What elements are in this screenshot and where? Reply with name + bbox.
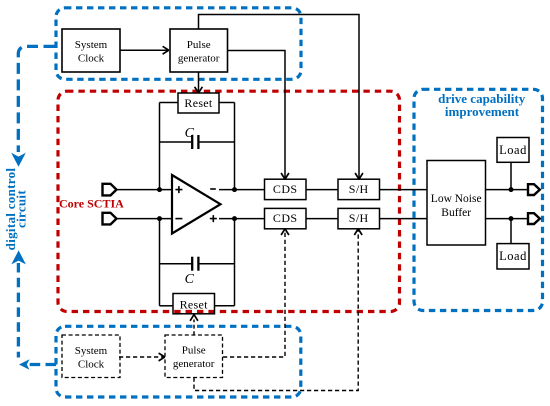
svg-text:Reset: Reset: [184, 96, 213, 110]
CDS bottom box: [265, 208, 307, 228]
S/H bottom box: [338, 208, 380, 228]
wire: pulse generator right to CDS top: [228, 51, 286, 179]
bottom feedback loop right vertical: [234, 219, 236, 306]
node: buffer out top junction: [509, 187, 514, 192]
input terminal top: [103, 184, 117, 196]
node: buffer out bottom junction: [509, 216, 514, 221]
output terminal top: [528, 184, 540, 195]
svg-text:Clock: Clock: [78, 359, 105, 371]
svg-text:Buffer: Buffer: [441, 207, 471, 219]
wire: reset bottom right lead: [215, 305, 235, 307]
output terminal bottom: [528, 213, 540, 224]
node: input bottom junction: [157, 216, 162, 221]
Load top box: [497, 138, 529, 163]
node: output bottom junction: [232, 216, 237, 221]
blue arrow down: [11, 153, 26, 167]
wire: bottom capacitor right lead: [199, 263, 234, 265]
bottom feedback loop left vertical: [159, 219, 161, 306]
System Clock box (top): [62, 29, 120, 72]
dashed wire: bottom system clock to pulse generator: [119, 356, 164, 358]
wire: system clock to pulse generator: [120, 49, 169, 51]
Pulse generator box (bottom, dashed): [165, 335, 223, 378]
wire: buffer out top: [486, 189, 529, 191]
input terminal bottom: [103, 213, 117, 225]
label: digital control circuit (rotated): [3, 168, 28, 251]
Reset switch box bottom: [173, 294, 215, 314]
Low Noise Buffer box: [427, 161, 486, 246]
wire: input top to op-amp: [118, 189, 173, 191]
Reset switch box top: [178, 93, 219, 113]
blue control wire: bottom horizontal with left arrow: [28, 363, 56, 366]
svg-text:System: System: [75, 39, 108, 51]
svg-text:CDS: CDS: [273, 182, 298, 196]
svg-text:generator: generator: [173, 358, 215, 370]
svg-text:circuit: circuit: [13, 190, 28, 228]
capacitor C1 plates (top): [191, 135, 193, 149]
wire: op-amp out top to CDS: [219, 189, 265, 191]
wire: junction to Load bottom: [510, 219, 512, 244]
node: output top junction: [232, 187, 237, 192]
drive capability improvement container (blue dashed): [414, 89, 543, 310]
wire: reset bottom left lead: [160, 305, 174, 307]
S/H top box: [338, 179, 380, 199]
wire: op-amp out bottom to CDS: [219, 218, 265, 220]
svg-text:Reset: Reset: [180, 297, 209, 311]
dashed wire: bottom pulse generator to S/H bottom: [194, 229, 358, 390]
wire: reset top right lead: [219, 102, 235, 104]
svg-text:improvement: improvement: [445, 104, 520, 119]
wire: bottom capacitor left lead: [160, 263, 192, 265]
svg-text:CDS: CDS: [273, 211, 298, 225]
wire: pulse generator bottom to Reset top: [198, 72, 200, 92]
svg-text:Low Noise: Low Noise: [431, 193, 482, 205]
op-amp - output label: [210, 188, 216, 190]
wire: input bottom to op-amp: [118, 218, 173, 220]
dashed wire: bottom pulse generator to CDS bottom: [223, 229, 285, 357]
Load bottom box: [497, 244, 529, 269]
svg-text:C: C: [185, 272, 195, 287]
blue control wire: top segment with rounded corner: [18, 46, 56, 152]
wire: S/H top to buffer: [380, 189, 428, 191]
bottom digital control container (blue dashed): [56, 326, 301, 397]
svg-text:generator: generator: [178, 53, 220, 65]
svg-text:Load: Load: [499, 143, 527, 157]
Pulse generator box (top): [170, 29, 228, 72]
wire: CDS bottom to S/H bottom: [306, 218, 338, 220]
Core SCTIA container (red dashed): [58, 91, 400, 311]
wire: S/H bottom to buffer: [380, 218, 428, 220]
svg-text:C: C: [185, 126, 195, 141]
svg-text:S/H: S/H: [349, 182, 369, 196]
op-amp + output label: [210, 215, 217, 222]
wire: pulse generator top to S/H top: [199, 15, 360, 179]
wire: reset top left lead: [160, 102, 179, 104]
digital control top container (blue dashed): [56, 8, 301, 80]
wire: CDS top to S/H top: [306, 189, 338, 191]
wire: top feedback loop left vertical: [159, 103, 161, 190]
dashed wire: bottom pulse generator up to Reset bottom: [193, 320, 195, 336]
CDS top box: [265, 179, 307, 199]
svg-text:S/H: S/H: [349, 211, 369, 225]
svg-text:Pulse: Pulse: [187, 39, 211, 51]
System Clock box (bottom, dashed): [62, 335, 120, 378]
op-amp + input label: [175, 186, 182, 193]
svg-text:Clock: Clock: [78, 53, 105, 65]
svg-text:System: System: [75, 345, 108, 357]
node: input top junction: [157, 187, 162, 192]
capacitor C2 plates (bottom): [191, 257, 193, 271]
wire: buffer out bottom: [486, 218, 529, 220]
svg-text:Core SCTIA: Core SCTIA: [59, 197, 124, 211]
blue arrow up: [11, 250, 26, 264]
wire: top feedback loop right vertical: [234, 103, 236, 190]
blue control wire: bottom vertical segment: [17, 263, 20, 358]
svg-text:Load: Load: [499, 249, 527, 263]
wire: junction to Load top: [510, 162, 512, 189]
op-amp U1 triangle: [172, 175, 221, 234]
svg-text:Pulse: Pulse: [182, 344, 206, 356]
wire: top capacitor left lead: [160, 141, 192, 143]
wire: top capacitor right lead: [199, 141, 234, 143]
op-amp - input label: [175, 218, 182, 220]
